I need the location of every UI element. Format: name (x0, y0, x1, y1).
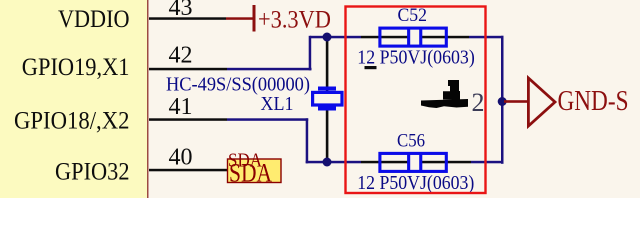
capacitor C52 body (380, 28, 446, 46)
wire right vertical (501, 36, 504, 164)
power bar +3.3VD (253, 5, 256, 32)
svg-text:SDA: SDA (228, 150, 262, 172)
node X2 junction dot (323, 158, 332, 167)
wire C52 to corner (469, 36, 504, 39)
svg-text:GPIO19,X1: GPIO19,X1 (22, 54, 130, 81)
ink scribble redaction (421, 99, 468, 108)
pin 41 wire (149, 118, 227, 121)
wire X1 top to C52 (310, 36, 361, 39)
node X1 junction dot (323, 33, 332, 42)
selection mark under 12 (365, 66, 377, 69)
wire C56 to corner (471, 161, 504, 164)
IC body right border (147, 0, 149, 198)
svg-text:41: 41 (169, 94, 193, 120)
C52 left lead (361, 36, 408, 39)
pin 42 wire (149, 68, 227, 71)
wire X2 bottom to node (306, 161, 327, 164)
wire X1 horizontal (227, 68, 312, 71)
power rail lead (226, 17, 254, 20)
svg-text:12 P50VJ(0603): 12 P50VJ(0603) (357, 172, 474, 194)
crystal branch wire (326, 37, 329, 162)
pin 43 wire (149, 17, 226, 20)
capacitor C56 plate bar right (419, 153, 422, 173)
svg-text:GND-S: GND-S (558, 85, 629, 117)
net label SDA box (228, 159, 282, 183)
svg-text:XL1: XL1 (261, 93, 294, 115)
capacitor C56 body (380, 153, 446, 171)
wire X1 riser (309, 36, 312, 71)
svg-text:C56: C56 (397, 131, 425, 152)
svg-text:C52: C52 (398, 5, 428, 26)
C56 right lead (420, 161, 471, 164)
capacitor C56 plate bar left (407, 153, 410, 173)
svg-text:GPIO18/,X2: GPIO18/,X2 (14, 108, 130, 135)
wire X2 riser (306, 118, 309, 163)
svg-text:+3.3VD: +3.3VD (258, 6, 331, 33)
pin 40 wire (149, 169, 280, 172)
capacitor C52 plate bar right (419, 27, 422, 47)
GND stub wire (504, 100, 529, 103)
node GND junction dot (498, 97, 507, 106)
ground symbol GND-S triangle (528, 78, 555, 126)
wire X2 horizontal (227, 118, 308, 121)
svg-text:2: 2 (472, 88, 485, 117)
svg-text:40: 40 (169, 144, 193, 170)
wire node to C56 (327, 161, 361, 164)
capacitor C52 plate bar left (407, 27, 410, 47)
ink scribble upper blob (443, 80, 460, 100)
crystal XL1 top plate (318, 87, 336, 91)
C56 left lead (361, 161, 408, 164)
IC body (yellow part edge) (0, 0, 148, 198)
C52 right lead (420, 36, 469, 39)
svg-text:GPIO32: GPIO32 (55, 159, 130, 186)
svg-text:VDDIO: VDDIO (58, 6, 130, 33)
svg-text:42: 42 (169, 43, 193, 69)
red selection box (346, 7, 486, 194)
svg-text:12 P50VJ(0603): 12 P50VJ(0603) (357, 47, 475, 69)
crystal XL1 bottom plate (318, 107, 336, 111)
crystal XL1 body (313, 92, 342, 105)
